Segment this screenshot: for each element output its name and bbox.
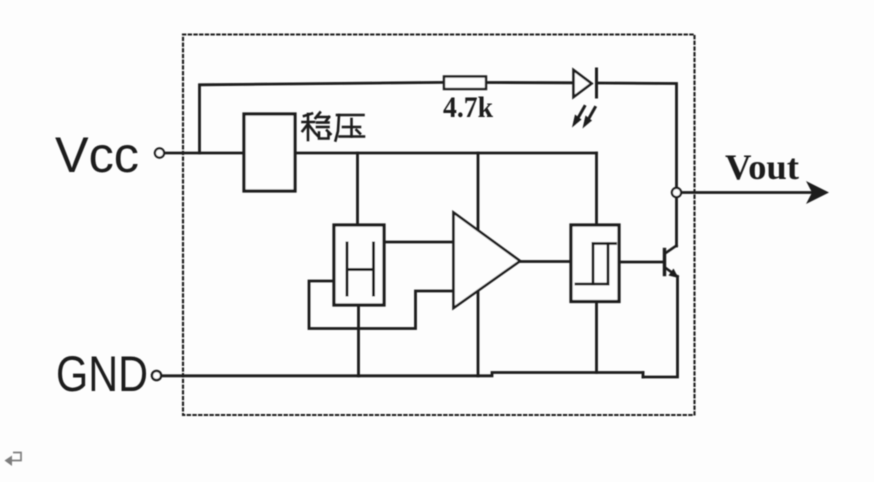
LED light arrow 2 [583, 108, 596, 129]
output node circle [672, 188, 681, 197]
wire: resistor to LED [486, 81, 574, 84]
wire: schmitt out to transistor base [619, 261, 663, 264]
Vout arrowhead [806, 181, 829, 204]
wire: LED to right vertical, down to output node [597, 83, 677, 188]
wire: emitter jog joins ground rail [642, 373, 645, 378]
GND terminal circle [152, 371, 161, 380]
wire: Hall feedback loop to amp input - [309, 281, 454, 329]
wire: top rail VCC to resistor [200, 82, 445, 153]
svg-text:GND: GND [56, 346, 148, 402]
wire: Vout line [682, 191, 813, 194]
wire: rail to Hall element top [356, 153, 359, 225]
op-amp amplifier triangle [454, 213, 521, 309]
Hall H glyph [347, 243, 374, 295]
wire: ground rail left part [162, 373, 644, 376]
IC dashed boundary [183, 35, 695, 416]
VCC terminal circle [155, 148, 164, 157]
resistor R 4.7k [444, 77, 486, 90]
schmitt hysteresis glyph [576, 244, 616, 285]
transistor Q1 [665, 246, 679, 279]
wire: Hall bottom to ground rail [357, 305, 360, 376]
svg-text:Vout: Vout [725, 147, 799, 187]
schmitt trigger box [571, 225, 619, 302]
wire: amplifier supply vertical (behind triangle) [477, 153, 480, 376]
svg-text:4.7k: 4.7k [443, 91, 493, 124]
paragraph return mark [5, 453, 22, 467]
wire: collector from output node [675, 197, 678, 246]
label 稳压 (drawn strokes, char 稳) [303, 113, 331, 141]
voltage regulator box [244, 114, 295, 191]
wire: rail to schmitt top [595, 153, 598, 225]
label 稳压 (drawn strokes, char 压) [336, 115, 365, 141]
wire: emitter down to ground rail [643, 277, 678, 378]
LED light arrow 1 [572, 107, 585, 128]
wire: VCC input rail [165, 152, 245, 155]
Hall element box [334, 225, 384, 305]
wire: schmitt bottom to ground rail [595, 302, 598, 373]
wire: regulator output rail [295, 152, 597, 155]
svg-text:Vcc: Vcc [55, 127, 139, 183]
LED diode triangle [574, 70, 592, 97]
wire: amp output to schmitt [520, 260, 571, 263]
wire: Hall out to amp input + [384, 241, 454, 244]
LED cathode bar [595, 69, 598, 97]
